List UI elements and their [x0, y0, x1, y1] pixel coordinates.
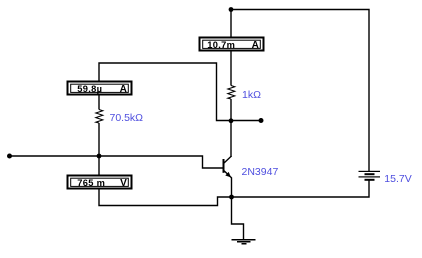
svg-text:10.7m: 10.7m [207, 40, 235, 50]
svg-text:1kΩ: 1kΩ [242, 89, 261, 101]
svg-text:V: V [120, 178, 127, 189]
svg-text:59.8µ: 59.8µ [77, 84, 102, 94]
svg-text:765 m: 765 m [77, 178, 105, 188]
svg-text:2N3947: 2N3947 [242, 166, 279, 178]
svg-text:70.5kΩ: 70.5kΩ [110, 112, 144, 124]
svg-text:15.7V: 15.7V [384, 173, 411, 185]
svg-text:A: A [120, 84, 127, 95]
svg-text:A: A [252, 40, 259, 51]
